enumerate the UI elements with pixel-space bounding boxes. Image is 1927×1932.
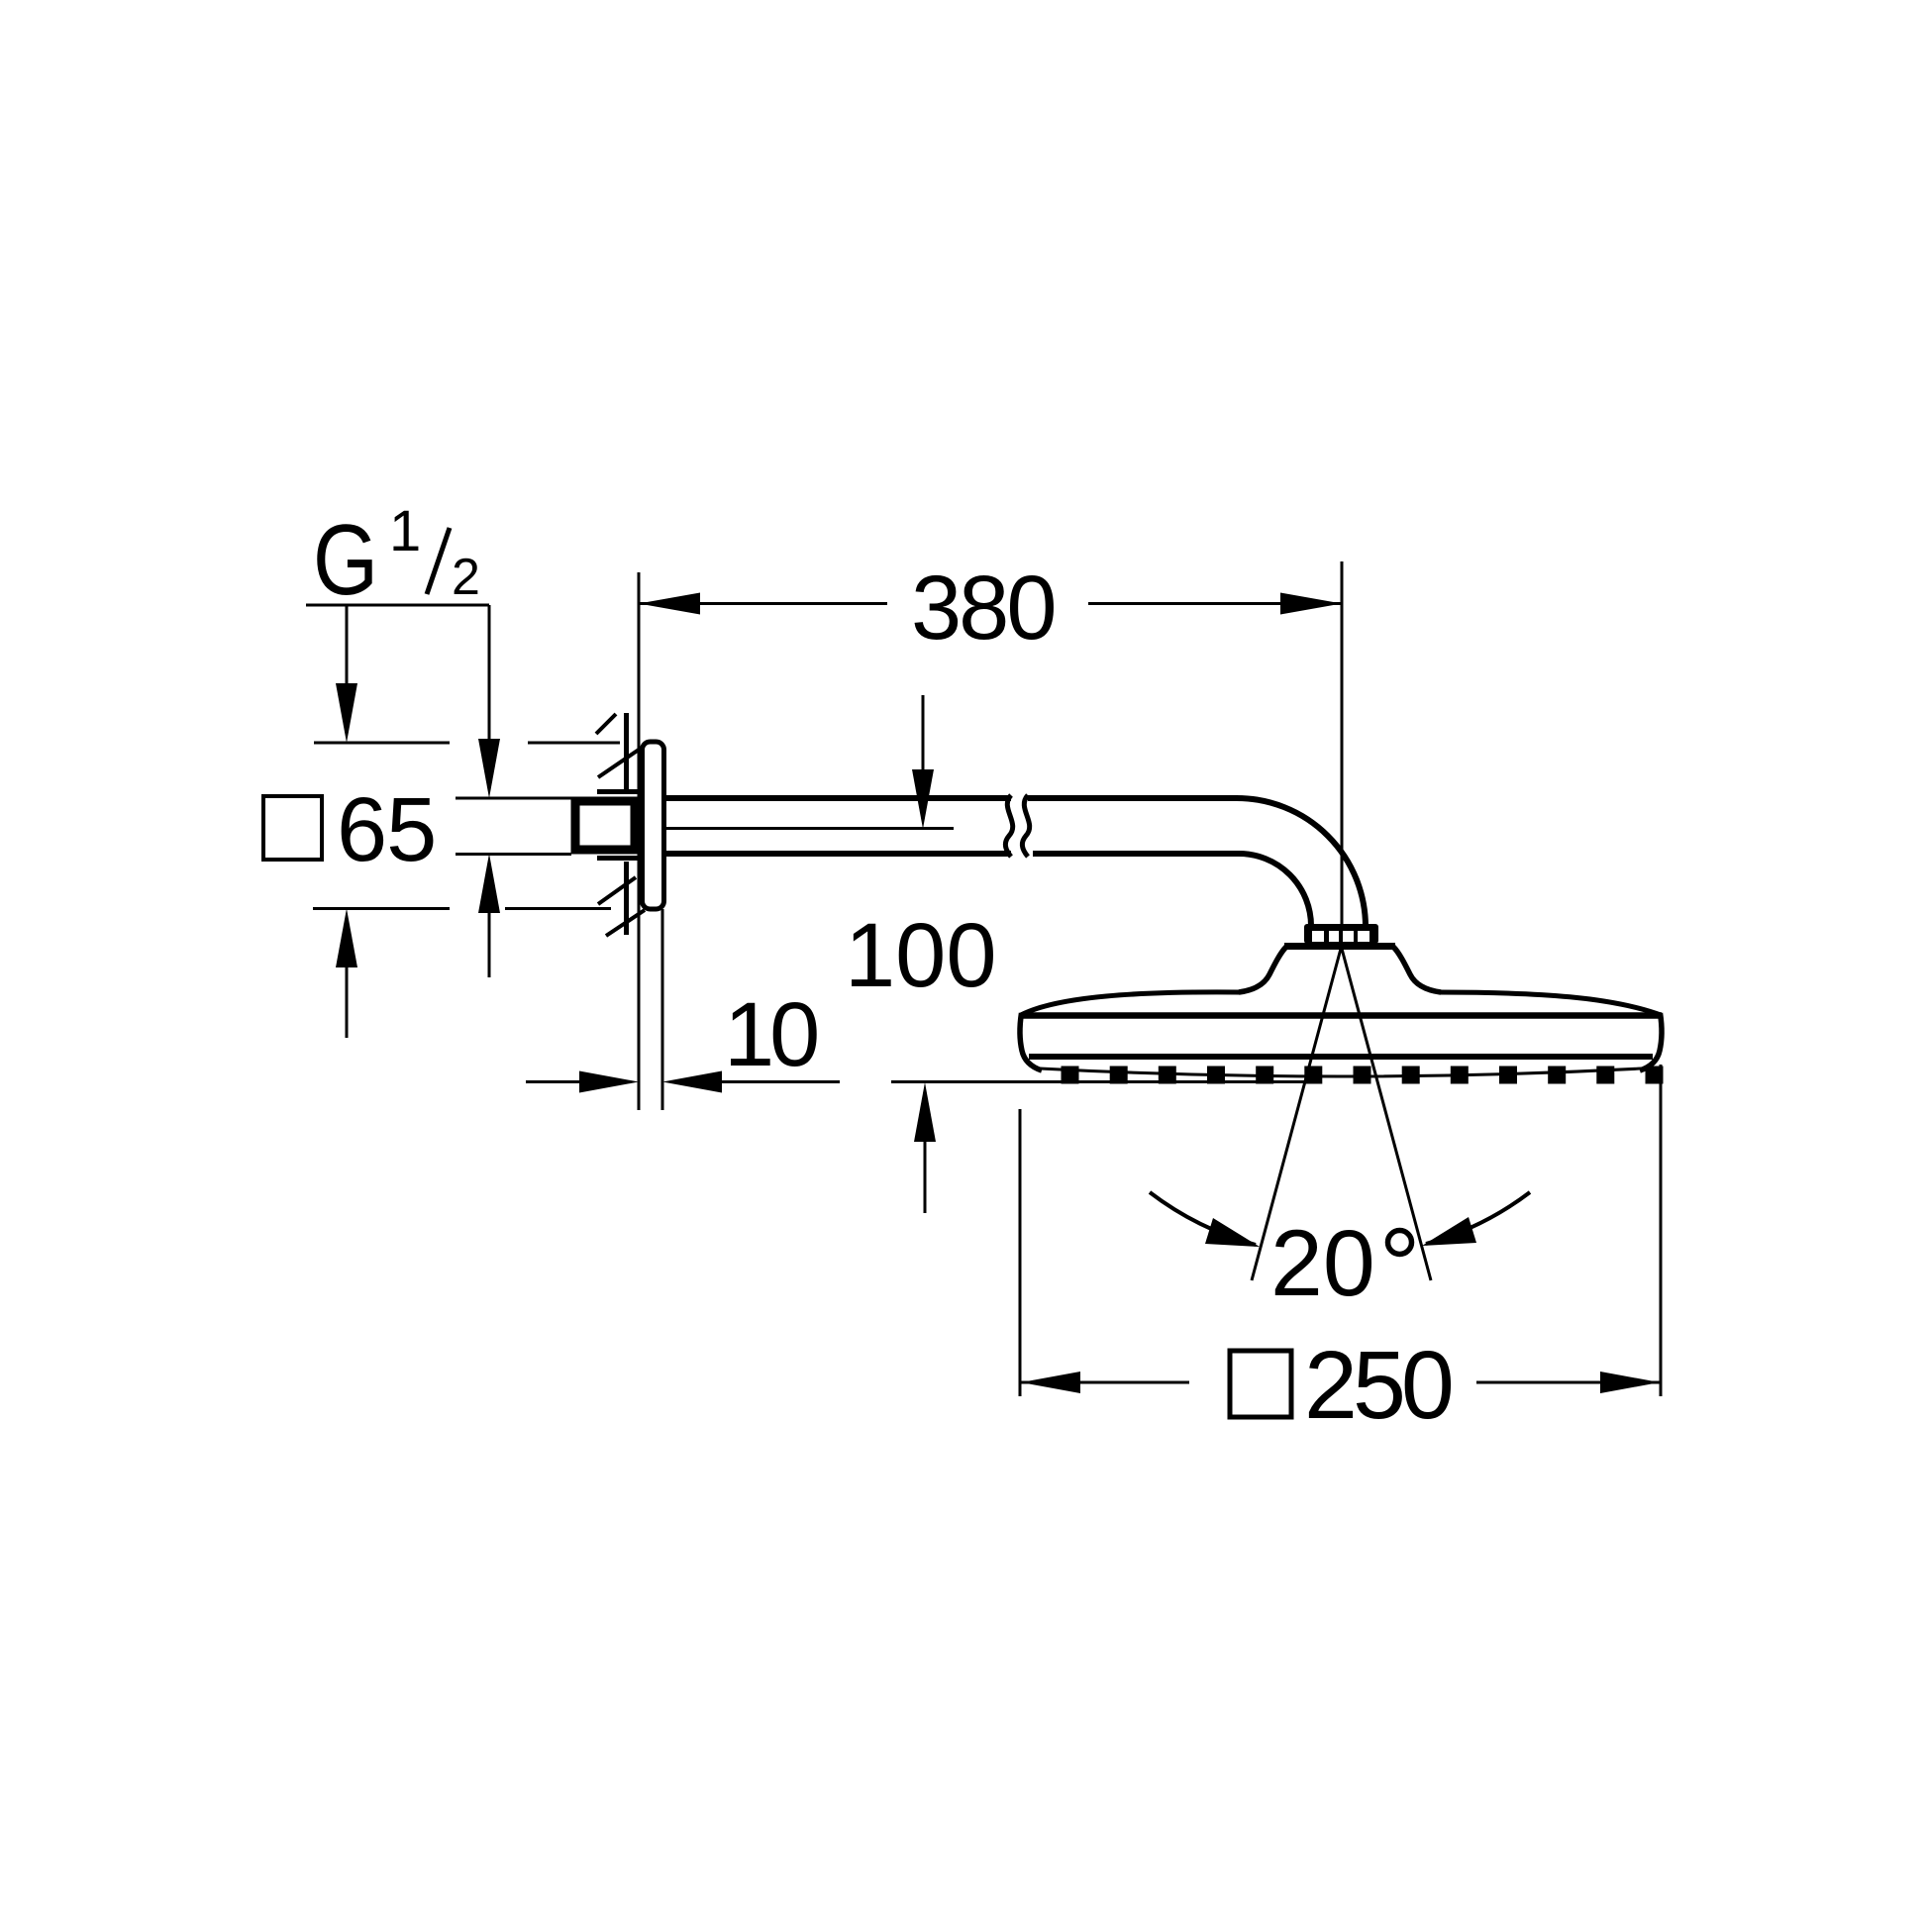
head right edge: [1640, 1013, 1662, 1070]
svg-text:G: G: [313, 504, 378, 616]
spray angle arc arrow left: [1150, 1192, 1256, 1245]
svg-text:20: 20: [1270, 1211, 1375, 1316]
dim 100 lower reference line: [891, 1080, 1310, 1083]
head cap dome: [1284, 943, 1395, 950]
label G 1/2: [313, 504, 378, 616]
elbow inner curve: [1239, 854, 1311, 926]
dim 10 arrows: [526, 1080, 579, 1083]
square wall connector: [575, 801, 635, 850]
wall hatch lower: [598, 862, 645, 936]
dim 100 lower arrow: [924, 1139, 927, 1213]
flange escutcheon plate: [643, 742, 664, 909]
dim 250 extension lines: [1019, 1109, 1022, 1396]
collet nut: [1304, 924, 1378, 944]
wall hatch upper: [596, 713, 639, 792]
dim 100 upper arrow: [922, 695, 925, 772]
svg-text:2: 2: [452, 549, 480, 606]
pipe break symbol: [1005, 795, 1012, 857]
G 1/2 tick lines at pipe: [456, 798, 571, 855]
svg-text:65: 65: [337, 779, 436, 880]
wall line: [638, 572, 641, 1110]
square symbol 65: [263, 796, 322, 860]
square symbol 250: [1230, 1351, 1291, 1417]
head top surface: [1021, 992, 1240, 1015]
shower arm pipe top edge: [664, 795, 1237, 801]
connector nut ticks: [597, 792, 640, 859]
svg-text:100: 100: [845, 905, 997, 1006]
dim 380 extension line right: [1341, 561, 1344, 926]
pipe centre reference line: [664, 827, 954, 830]
G 1/2 leader line: [306, 605, 489, 748]
face plate rim: [1040, 1068, 1642, 1076]
head left edge: [1020, 1013, 1042, 1070]
spray angle arc arrow right: [1426, 1192, 1530, 1244]
shower arm pipe bottom edge: [664, 851, 1239, 857]
svg-text:1: 1: [389, 499, 421, 563]
dim 380: [639, 602, 1342, 605]
elbow outer curve: [1237, 798, 1366, 927]
head band bottom line: [1029, 1054, 1653, 1060]
svg-text:380: 380: [911, 558, 1055, 659]
dim square65 ticks: [314, 742, 620, 745]
dim square65 arrows: [346, 605, 349, 693]
dim 250: [1021, 1381, 1660, 1384]
svg-text:250: 250: [1304, 1331, 1452, 1439]
head mid band line: [1021, 1012, 1662, 1019]
svg-text:10: 10: [724, 984, 817, 1085]
spray angle lines 20 deg: [1252, 949, 1341, 1280]
nozzles: [1062, 1067, 1664, 1084]
dim 10 extension line: [661, 909, 664, 1110]
